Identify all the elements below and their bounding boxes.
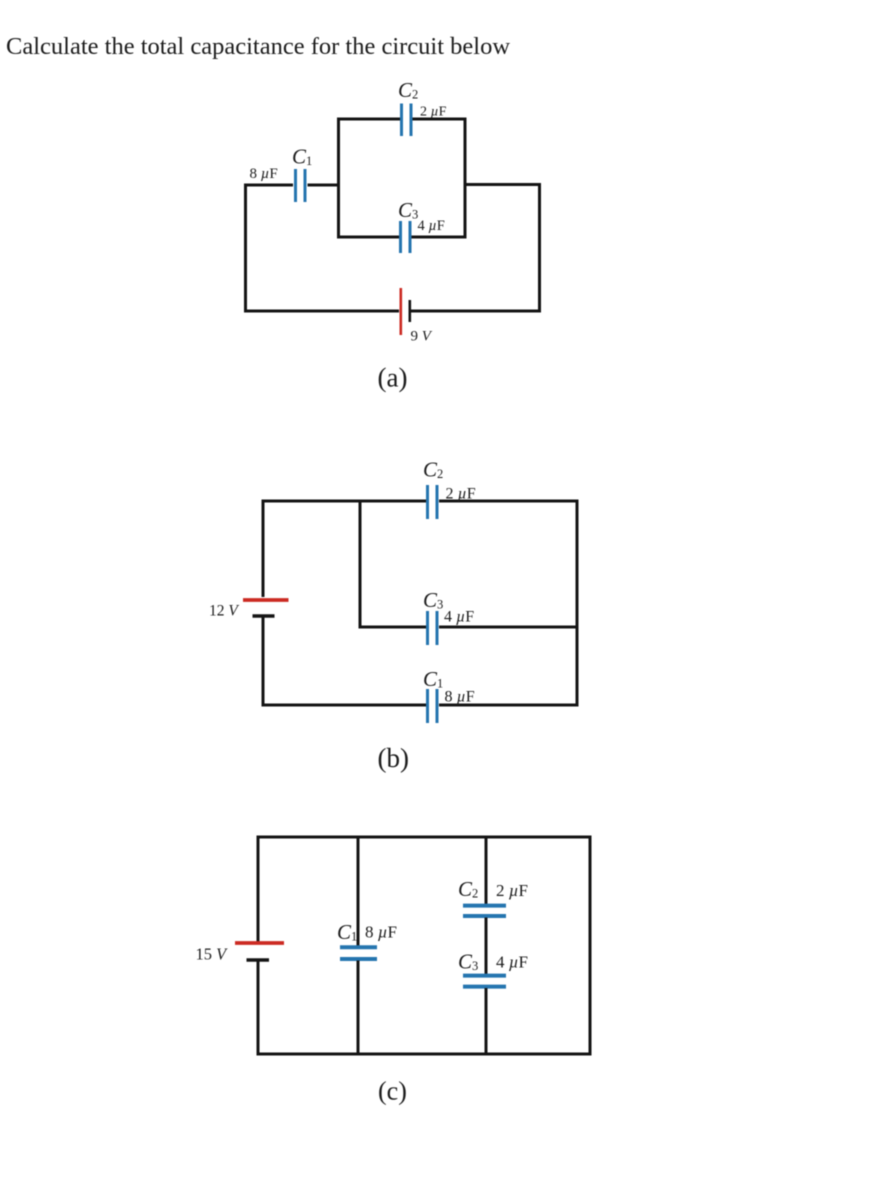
- svg-text:15 V: 15 V: [196, 945, 229, 964]
- value 4 uF (b): [444, 609, 474, 626]
- capacitor C1 (c) plates: [340, 947, 377, 959]
- svg-text:2 µF: 2 µF: [496, 881, 528, 900]
- value 4 uF (a): [418, 218, 445, 234]
- svg-text:8 µF: 8 µF: [365, 923, 397, 942]
- wire: (c) branch 2 vertical below C3: [485, 988, 488, 1054]
- value 2 uF (a): [420, 105, 447, 120]
- value 2 uF (c): [496, 881, 528, 900]
- wire: (a) middle segment C1 to box: [308, 184, 339, 187]
- caption (b): [378, 743, 409, 773]
- label C1 (a): [292, 145, 312, 169]
- wire: (c) bottom wire: [257, 1053, 592, 1056]
- battery 12V (b) positive plate (red): [243, 598, 289, 602]
- wire: (a) box bottom-left segment: [337, 236, 399, 239]
- svg-text:(c): (c): [378, 1077, 407, 1106]
- svg-text:9 V: 9 V: [411, 329, 433, 345]
- label 15 V: [196, 945, 229, 964]
- value 2 uF (b): [446, 486, 476, 503]
- wire: (c) left vertical above battery: [257, 836, 260, 942]
- wire: (a) top box top-right segment: [413, 118, 467, 121]
- svg-text:(a): (a): [378, 363, 408, 393]
- capacitor C2 (b) plates: [428, 485, 438, 519]
- wire: (c) left vertical below battery: [257, 962, 260, 1056]
- label 12 V: [209, 603, 239, 620]
- wire: (b) top wire right of C2: [439, 500, 579, 503]
- svg-text:4 µF: 4 µF: [418, 218, 445, 234]
- label C3 (c): [458, 950, 478, 974]
- svg-text:8 µF: 8 µF: [445, 689, 475, 706]
- wire: (a) box left edge: [337, 118, 340, 239]
- wire: (c) branch 2 vertical above C2: [485, 837, 488, 904]
- label C2 (c): [458, 877, 478, 901]
- wire: (c) branch 2 vertical between C2 and C3: [485, 918, 488, 975]
- value 8 uF (a): [250, 166, 278, 182]
- label C2 (a): [398, 78, 418, 102]
- wire: (a) right outer vertical: [538, 183, 541, 313]
- wire: (b) bottom wire left of C1: [262, 704, 427, 707]
- capacitor C3 (a) plates: [401, 221, 411, 253]
- wire: (b) middle wire right of C3: [439, 626, 579, 629]
- wire: (b) right vertical: [576, 500, 579, 707]
- svg-text:2 µF: 2 µF: [446, 486, 476, 503]
- caption (c): [378, 1077, 407, 1106]
- capacitor C2 (c) plates: [463, 906, 506, 916]
- wire: (b) top wire left of C2: [262, 500, 427, 503]
- svg-text:8 µF: 8 µF: [250, 166, 278, 182]
- wire: (b) middle wire left of C3: [359, 626, 427, 629]
- capacitor C3 (b) plates: [428, 611, 438, 645]
- label C1 (b): [423, 667, 443, 691]
- battery 9V (a) negative plate (black): [408, 300, 411, 322]
- battery 15V (c) negative plate (black): [247, 958, 270, 961]
- svg-text:Calculate the total capacitanc: Calculate the total capacitance for the …: [6, 33, 510, 60]
- title: [6, 33, 510, 60]
- wire: (c) top wire: [257, 836, 592, 839]
- label C2 (b): [423, 458, 443, 482]
- svg-text:2 µF: 2 µF: [420, 105, 447, 120]
- wire: (b) inner vertical: [359, 500, 362, 629]
- wire: (a) top box top-left segment: [337, 118, 400, 121]
- value 8 uF (c): [365, 923, 397, 942]
- wire: (c) branch 1 vertical below C1: [357, 961, 360, 1055]
- wire: (a) box bottom-right segment: [412, 236, 467, 239]
- battery 9V (a) positive plate (red): [399, 288, 402, 335]
- svg-text:12 V: 12 V: [209, 603, 239, 620]
- wire: (a) middle-right segment box to right wire: [465, 183, 541, 186]
- wire: (b) left vertical below battery: [262, 618, 265, 707]
- wire: (a) bottom-left segment: [244, 310, 399, 313]
- svg-text:(b): (b): [378, 743, 409, 773]
- wire: (c) branch 1 vertical above C1: [357, 837, 360, 946]
- wire: (a) box right edge: [464, 118, 467, 239]
- svg-text:4 µF: 4 µF: [496, 953, 528, 972]
- capacitor C1 (b) plates: [428, 689, 438, 723]
- label C1 (c): [337, 920, 357, 944]
- wire: (c) right vertical: [589, 836, 592, 1056]
- caption (a): [378, 363, 408, 393]
- label 9 V: [411, 329, 433, 345]
- value 4 uF (c): [496, 953, 528, 972]
- battery 15V (c) positive plate (red): [235, 941, 284, 945]
- label C3 (a): [398, 198, 418, 222]
- capacitor C1 (a) plates: [296, 169, 306, 202]
- wire: (a) bottom-right segment: [411, 310, 542, 313]
- label C3 (b): [423, 588, 443, 612]
- capacitor C3 (c) plates: [463, 976, 506, 987]
- wire: (b) left vertical above battery: [262, 500, 265, 598]
- wire: (a) middle-left segment into C1: [244, 184, 293, 187]
- value 8 uF (b): [445, 689, 475, 706]
- capacitor C2 (a) plates: [402, 104, 412, 137]
- svg-text:4 µF: 4 µF: [444, 609, 474, 626]
- wire: (a) left outer vertical: [244, 184, 247, 313]
- battery 12V (b) negative plate (black): [253, 614, 275, 617]
- wire: (b) bottom wire right of C1: [439, 704, 579, 707]
